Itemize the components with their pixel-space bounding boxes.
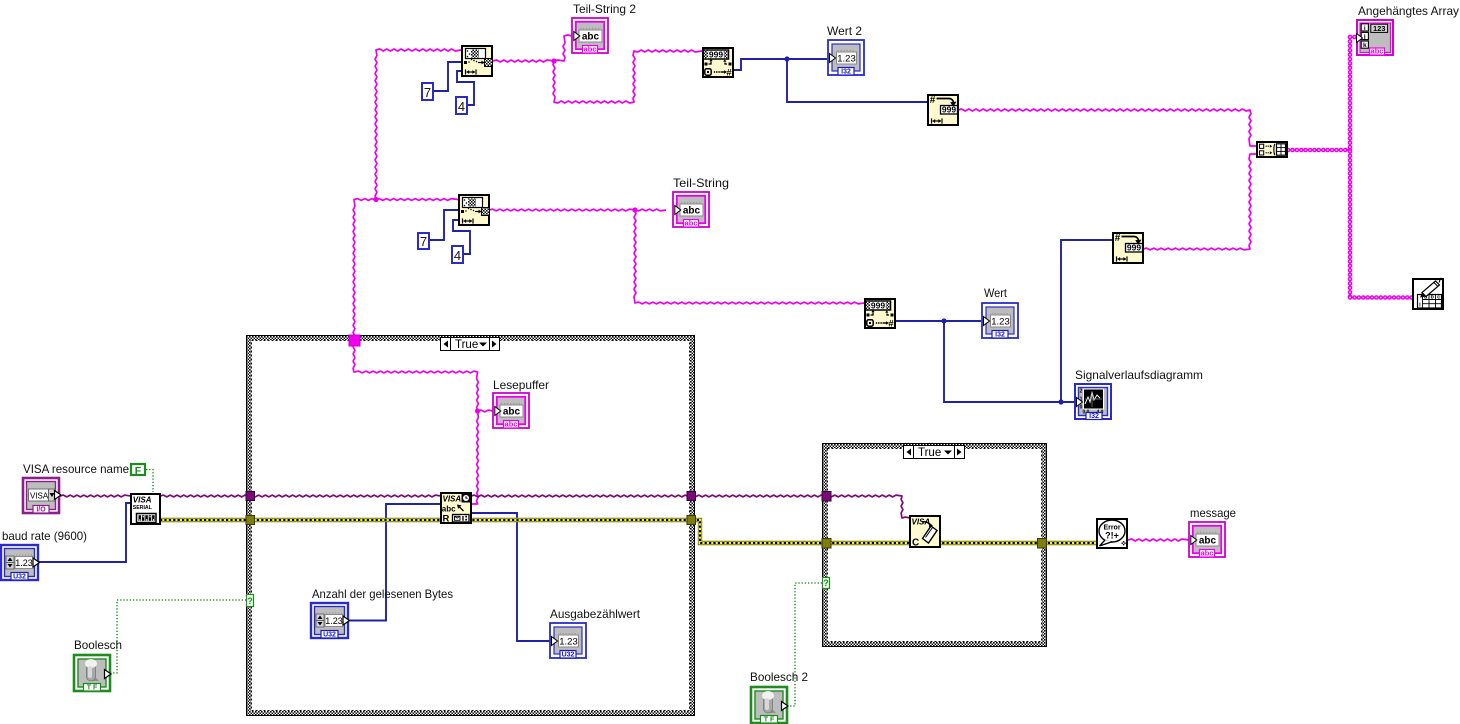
svg-text:Angehängtes Array: Angehängtes Array bbox=[1358, 4, 1459, 18]
svg-text:1.23: 1.23 bbox=[15, 558, 33, 568]
svg-text:F: F bbox=[135, 465, 142, 477]
svg-text:#: # bbox=[888, 319, 894, 330]
svg-text:VISA: VISA bbox=[133, 496, 152, 505]
svg-text:#: # bbox=[1115, 233, 1121, 244]
svg-text:True: True bbox=[918, 447, 941, 459]
svg-text:abc: abc bbox=[584, 45, 597, 54]
svg-text:999: 999 bbox=[871, 301, 885, 311]
svg-text:7: 7 bbox=[420, 234, 427, 249]
svg-text:c: c bbox=[1437, 295, 1440, 301]
svg-text:Teil-String: Teil-String bbox=[673, 176, 729, 190]
svg-text:abc: abc bbox=[1199, 535, 1217, 546]
svg-text:Wert: Wert bbox=[984, 286, 1008, 300]
svg-text:999: 999 bbox=[942, 105, 956, 115]
svg-text:2: 2 bbox=[1080, 389, 1083, 395]
svg-text:1.23: 1.23 bbox=[837, 53, 856, 64]
svg-text:U32: U32 bbox=[13, 574, 26, 581]
svg-text:Ausgabezählwert: Ausgabezählwert bbox=[550, 607, 641, 621]
svg-text:999: 999 bbox=[1127, 243, 1141, 253]
svg-text:?!+: ?!+ bbox=[1105, 531, 1119, 541]
svg-text:SERIAL: SERIAL bbox=[133, 505, 153, 511]
svg-text:abc: abc bbox=[683, 205, 701, 216]
svg-text:1.23: 1.23 bbox=[991, 316, 1010, 327]
svg-text:k: k bbox=[1363, 42, 1367, 49]
svg-text:I32: I32 bbox=[995, 332, 1005, 339]
svg-text:VISA: VISA bbox=[30, 491, 49, 500]
svg-text:T F: T F bbox=[87, 685, 98, 692]
svg-text:C: C bbox=[912, 538, 919, 549]
svg-text:?: ? bbox=[823, 578, 829, 588]
svg-text:#: # bbox=[930, 95, 936, 106]
svg-text:Teil-String 2: Teil-String 2 bbox=[573, 2, 636, 16]
svg-text:U32: U32 bbox=[562, 652, 575, 659]
svg-text:Anzahl der gelesenen Bytes: Anzahl der gelesenen Bytes bbox=[312, 587, 453, 601]
svg-text:R: R bbox=[443, 514, 450, 525]
svg-text:Boolesch: Boolesch bbox=[74, 638, 122, 652]
svg-text:i: i bbox=[1364, 25, 1366, 32]
svg-text:Boolesch 2: Boolesch 2 bbox=[750, 670, 808, 684]
svg-text:I/O: I/O bbox=[36, 507, 46, 514]
svg-text:?: ? bbox=[247, 596, 253, 606]
svg-text:I32: I32 bbox=[841, 69, 851, 76]
svg-text:abc: abc bbox=[442, 505, 456, 514]
svg-text:1.23: 1.23 bbox=[559, 636, 578, 647]
svg-text:abc: abc bbox=[582, 31, 600, 42]
svg-text:True: True bbox=[455, 339, 478, 351]
svg-text:1.23: 1.23 bbox=[325, 616, 343, 626]
svg-text:Lesepuffer: Lesepuffer bbox=[493, 378, 549, 392]
svg-text:999: 999 bbox=[709, 50, 723, 60]
svg-text:abc: abc bbox=[505, 420, 518, 429]
svg-text:Wert 2: Wert 2 bbox=[827, 24, 862, 38]
svg-text:VISA resource name: VISA resource name bbox=[23, 462, 129, 476]
svg-text:#: # bbox=[726, 68, 732, 79]
svg-text:abc: abc bbox=[503, 406, 521, 417]
svg-text:Signalverlaufsdiagramm: Signalverlaufsdiagramm bbox=[1075, 368, 1203, 382]
svg-text:4: 4 bbox=[454, 248, 461, 263]
svg-text:baud rate (9600): baud rate (9600) bbox=[2, 529, 87, 543]
svg-text:U32: U32 bbox=[323, 632, 336, 639]
svg-text:VISA: VISA bbox=[443, 495, 462, 504]
svg-text:abc: abc bbox=[685, 219, 698, 228]
svg-text:abc: abc bbox=[1201, 549, 1214, 558]
svg-text:abc: abc bbox=[1371, 47, 1384, 56]
svg-text:j: j bbox=[1363, 34, 1366, 41]
svg-text:I32: I32 bbox=[1089, 413, 1099, 420]
svg-text:message: message bbox=[1190, 506, 1236, 520]
svg-text:4: 4 bbox=[458, 99, 465, 114]
svg-text:7: 7 bbox=[424, 85, 431, 100]
svg-text:123: 123 bbox=[1373, 24, 1386, 33]
svg-text:T F: T F bbox=[764, 717, 775, 724]
